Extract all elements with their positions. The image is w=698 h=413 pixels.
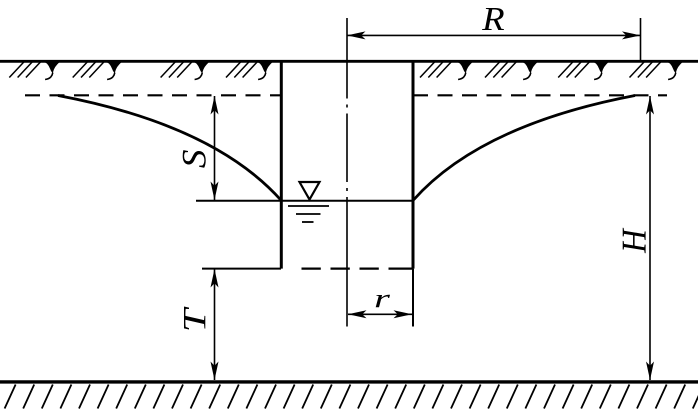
dimension R line <box>347 34 641 36</box>
dimension H arrowhead bottom <box>646 362 654 381</box>
label R <box>482 8 504 30</box>
label r <box>376 295 390 308</box>
dimension S arrowhead top <box>211 96 219 115</box>
dimension R arrowhead right <box>622 31 641 39</box>
label S <box>183 150 206 168</box>
dimension H line <box>649 96 651 380</box>
ground hatching left <box>9 62 257 78</box>
label H <box>623 228 646 253</box>
dimension S arrowhead bottom <box>211 182 219 201</box>
dimension H arrowhead top <box>646 96 654 115</box>
well right wall <box>412 61 415 268</box>
water level triangle symbol <box>300 182 320 200</box>
centre line extension to r dimension <box>346 270 348 327</box>
dimension T arrowhead bottom <box>211 362 219 381</box>
ground tufts left <box>44 62 272 80</box>
dimension T arrowhead top <box>211 269 219 288</box>
dimension r line <box>348 313 412 315</box>
aquiclude hatching <box>0 385 698 409</box>
well bottom extension line (solid, left) <box>202 268 281 270</box>
label T <box>184 307 205 330</box>
well centre line (dash-dot) <box>346 61 348 270</box>
dimension r extension line right (well wall extended) <box>412 269 414 327</box>
dimension T line <box>214 269 216 380</box>
ground hatching right <box>420 62 661 78</box>
dimension R extension line right <box>640 18 642 61</box>
drawdown curve left <box>58 96 281 201</box>
well left wall <box>280 61 283 268</box>
dimension r arrowhead left <box>348 310 367 318</box>
pumped water level line <box>196 200 413 202</box>
static water table dashed line right <box>413 94 667 96</box>
aquiclude top line <box>0 380 698 383</box>
ground tufts right <box>457 62 682 80</box>
dimension S line <box>214 96 216 200</box>
drawdown curve right <box>413 96 635 201</box>
static water table dashed line left <box>25 94 281 96</box>
dimension r arrowhead right <box>394 310 413 318</box>
well centre line above ground (R extension) <box>346 18 348 61</box>
ground surface line <box>0 60 698 63</box>
well bottom dashed line <box>302 268 414 270</box>
water surface marks <box>288 206 329 222</box>
dimension R arrowhead left <box>347 31 366 39</box>
